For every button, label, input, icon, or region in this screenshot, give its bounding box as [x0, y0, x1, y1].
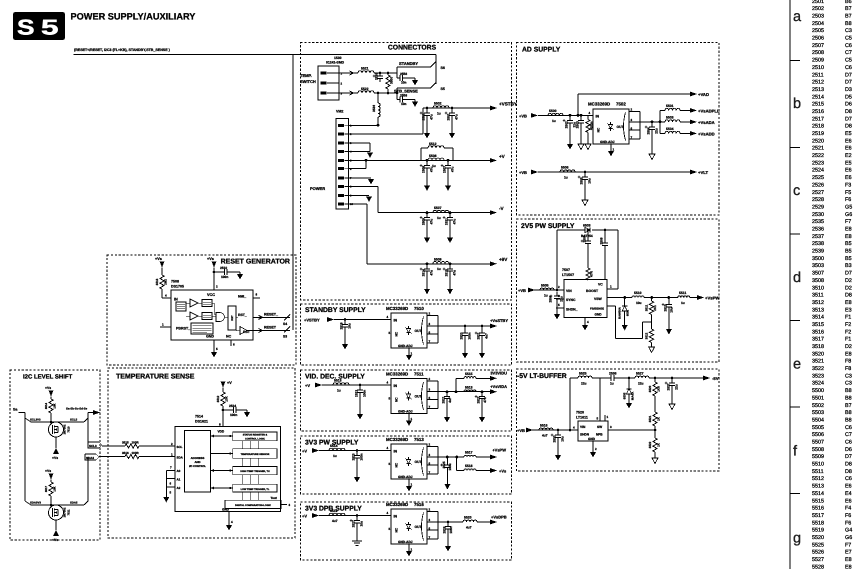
inductor 5505 [540, 283, 554, 297]
svg-text:GND-ADJ: GND-ADJ [398, 344, 413, 348]
svg-text:10u: 10u [360, 521, 364, 527]
wire scl line right [84, 418, 88, 422]
svg-text:+: + [373, 74, 376, 79]
svg-text:22u: 22u [581, 382, 587, 386]
svg-text:GND: GND [222, 507, 230, 511]
svg-text:C3: C3 [845, 373, 852, 379]
svg-text:1u: 1u [564, 176, 568, 180]
svg-text:E8: E8 [845, 234, 852, 240]
svg-text:1u: 1u [681, 301, 685, 305]
flag SCL3 [88, 442, 102, 448]
svg-text:47u: 47u [430, 114, 434, 120]
svg-text:E8: E8 [845, 557, 852, 563]
svg-text:STANDBY SUPPLY: STANDBY SUPPLY [305, 307, 366, 314]
svg-text:S3: S3 [283, 335, 287, 339]
svg-text:C6: C6 [845, 440, 852, 446]
svg-text:AND: AND [194, 460, 200, 464]
svg-text:E5: E5 [845, 131, 852, 137]
svg-text:3508: 3508 [812, 278, 824, 284]
svg-text:5507: 5507 [812, 440, 824, 446]
svg-text:2536: 2536 [812, 227, 824, 233]
svg-text:NC: NC [395, 397, 399, 402]
svg-text:B8: B8 [845, 21, 852, 27]
capacitor 2521 [475, 325, 489, 359]
svg-text:BAW56A: BAW56A [618, 307, 622, 319]
svg-text:3521: 3521 [648, 415, 652, 422]
capacitor 2509b [599, 229, 608, 280]
svg-text:G4: G4 [845, 528, 852, 534]
diode 6503 [581, 224, 593, 238]
svg-text:5510: 5510 [812, 462, 824, 468]
dashed box STANDBY SUPPLY [301, 304, 512, 365]
svg-text:5502: 5502 [434, 102, 442, 106]
svg-text:F6: F6 [845, 520, 851, 526]
svg-text:2509: 2509 [599, 237, 603, 244]
connector VM2 POWER [310, 110, 353, 210]
svg-text:F8: F8 [845, 359, 851, 365]
svg-text:VSW: VSW [594, 297, 603, 301]
supply below 7511 [52, 520, 59, 542]
IC 7514 ground pin [222, 507, 233, 530]
label +V input viddec [305, 383, 322, 388]
svg-text:2514: 2514 [812, 94, 824, 100]
svg-text:-5V: -5V [712, 376, 719, 381]
wire 2v5 input [534, 289, 564, 291]
svg-text:+V: +V [227, 381, 232, 385]
inductor 5519 [329, 509, 345, 523]
svg-text:3511: 3511 [812, 293, 824, 299]
svg-text:E6: E6 [845, 484, 852, 490]
capacitor 2536 series [609, 371, 620, 385]
svg-text:D8: D8 [845, 109, 852, 115]
svg-text:1u: 1u [544, 294, 548, 298]
svg-text:IN: IN [394, 384, 398, 388]
bus wire horizontal [74, 54, 437, 56]
svg-text:5519: 5519 [812, 528, 824, 534]
wire standby input [334, 319, 391, 321]
dashed box I2C LEVEL SHIFT [10, 370, 100, 540]
svg-text:3512: 3512 [812, 300, 824, 306]
supply +Vs sda [45, 469, 53, 482]
dashed box CONNECTORS [301, 43, 512, 301]
svg-text:3521: 3521 [812, 359, 824, 365]
svg-text:E7: E7 [845, 550, 852, 556]
svg-text:F6: F6 [845, 197, 851, 203]
svg-text:S4: S4 [283, 322, 287, 326]
wire ad branch vertical [659, 110, 661, 133]
svg-text:3520: 3520 [648, 385, 652, 392]
svg-text:CONTROL LOGIC: CONTROL LOGIC [245, 437, 265, 440]
svg-text:E6: E6 [845, 175, 852, 181]
connector 1530 TEMP SWITCH [300, 56, 345, 100]
svg-text:+VLT: +VLT [698, 170, 708, 175]
svg-text:5517: 5517 [812, 513, 824, 519]
svg-text:47u: 47u [483, 397, 487, 403]
svg-text:+VsDPB: +VsDPB [491, 515, 507, 520]
svg-text:+Vs: +Vs [45, 469, 51, 473]
svg-text:D2: D2 [845, 344, 852, 350]
svg-text:3514: 3514 [812, 315, 824, 321]
resistor 3517 [44, 482, 56, 505]
svg-text:5507: 5507 [434, 206, 442, 210]
wire RESET output [253, 326, 290, 339]
svg-text:VIN: VIN [580, 425, 586, 429]
wire dpb output [438, 521, 463, 523]
wire a0 a1 a2 ground [163, 466, 180, 503]
svg-text:3514: 3514 [44, 402, 48, 409]
svg-text:E8: E8 [845, 300, 852, 306]
svg-text:6501: 6501 [626, 309, 630, 316]
svg-text:MC33269D: MC33269D [386, 371, 408, 376]
svg-text:RESET_: RESET_ [264, 312, 279, 316]
svg-text:5516: 5516 [540, 423, 548, 427]
inductor 5513 [333, 378, 349, 392]
capacitor 2538 [373, 73, 383, 82]
svg-text:+: + [440, 463, 443, 468]
IC 7508 ground pin [211, 340, 218, 358]
svg-text:I2C LEVEL SHIFT: I2C LEVEL SHIFT [23, 373, 73, 380]
block interconnect lines [242, 441, 258, 501]
wire viddec input [322, 384, 391, 386]
svg-text:2529: 2529 [812, 204, 824, 210]
svg-text:7513: 7513 [414, 437, 424, 442]
dashed box VID. DEC. SUPPLY [301, 370, 512, 431]
capacitor 2527 [350, 516, 364, 542]
zone tick marks [790, 60, 800, 62]
inductor 5506 [560, 165, 575, 179]
wire 3v3pw input [319, 450, 391, 452]
svg-text:+Vs: +Vs [499, 468, 507, 473]
svg-text:C6: C6 [845, 43, 852, 49]
svg-text:+: + [443, 215, 446, 220]
inductor 5515 viddec top [464, 372, 476, 378]
svg-text:SDA3V3: SDA3V3 [30, 500, 41, 504]
inductor 5508 [428, 154, 444, 168]
svg-text:F2: F2 [845, 322, 851, 328]
capacitor 2508b [581, 229, 591, 268]
svg-text:RST_: RST_ [238, 313, 247, 317]
svg-text:GND-ADJ: GND-ADJ [398, 540, 413, 544]
svg-text:3510: 3510 [812, 285, 824, 291]
svg-text:F6: F6 [845, 513, 851, 519]
wire sda line left [31, 504, 84, 506]
capacitor 2521b [441, 390, 451, 422]
svg-text:4u7: 4u7 [466, 525, 472, 529]
svg-text:Tout: Tout [271, 496, 277, 500]
svg-text:VM2: VM2 [336, 110, 343, 114]
capacitor 2510b [214, 266, 243, 279]
svg-text:6505: 6505 [623, 392, 627, 399]
svg-text:5504: 5504 [666, 127, 674, 131]
branch +VsADD [660, 127, 715, 136]
svg-text:2513: 2513 [812, 87, 824, 93]
svg-text:1u: 1u [437, 267, 441, 271]
capacitor 2500 [420, 107, 434, 139]
wire 2v5 out arrow [690, 297, 697, 299]
svg-text:10u: 10u [561, 436, 565, 442]
svg-text:+: + [563, 118, 566, 123]
diode 6505 [623, 377, 635, 409]
rail wire +V [366, 159, 490, 161]
svg-text:B7: B7 [845, 403, 852, 409]
svg-text:2522: 2522 [812, 153, 824, 159]
svg-text:6503: 6503 [583, 224, 591, 228]
capacitor 2507 [441, 159, 455, 191]
svg-text:2538: 2538 [812, 241, 824, 247]
svg-text:LT1507: LT1507 [562, 273, 574, 277]
svg-text:NC: NC [395, 331, 399, 336]
capacitor 2525 [440, 457, 452, 490]
svg-text:7507: 7507 [562, 268, 570, 272]
capacitor 2513 [354, 385, 366, 420]
svg-text:5520: 5520 [464, 515, 472, 519]
svg-text:+: + [475, 394, 478, 399]
svg-text:MC33269D: MC33269D [386, 502, 408, 507]
capacitor 2530 [551, 430, 565, 461]
svg-text:+: + [475, 331, 478, 336]
svg-text:LT1611: LT1611 [576, 415, 588, 419]
svg-text:HIGH TEMP TRIGGER, TH: HIGH TEMP TRIGGER, TH [240, 470, 270, 473]
svg-text:5527: 5527 [636, 371, 644, 375]
svg-text:5515: 5515 [812, 498, 824, 504]
svg-text:5506: 5506 [561, 165, 569, 169]
diode 6501 [618, 298, 630, 331]
svg-text:+VSTBY: +VSTBY [499, 101, 517, 106]
svg-text:2509: 2509 [812, 58, 824, 64]
svg-text:E8: E8 [845, 351, 852, 357]
svg-text:2519: 2519 [339, 322, 343, 329]
svg-text:E3: E3 [845, 307, 852, 313]
IC 7507 ground pin [582, 318, 589, 331]
capacitor 2509 [420, 211, 434, 243]
svg-text:+VB: +VB [519, 170, 527, 175]
svg-text:D7: D7 [845, 454, 852, 460]
svg-text:C6: C6 [845, 65, 852, 71]
capacitor 2505 [578, 172, 592, 206]
svg-text:2518: 2518 [812, 124, 824, 130]
svg-text:RST: RST [231, 315, 234, 321]
svg-text:E6: E6 [845, 146, 852, 152]
svg-text:E6: E6 [845, 498, 852, 504]
svg-text:2503: 2503 [812, 13, 824, 19]
svg-text:C7: C7 [845, 432, 852, 438]
svg-text:3V3VIDU: 3V3VIDU [490, 371, 507, 376]
inductor 5525 [578, 371, 592, 385]
svg-text:2516: 2516 [812, 109, 824, 115]
svg-text:C6: C6 [845, 425, 852, 431]
svg-text:E4: E4 [845, 491, 852, 497]
svg-text:5526: 5526 [812, 550, 824, 556]
svg-text:2521: 2521 [812, 146, 824, 152]
svg-text:5505: 5505 [541, 283, 549, 287]
wire power pin1 [349, 124, 380, 126]
svg-text:(RESET+/RESET, I2C3 (FL+KB), S: (RESET+/RESET, I2C3 (FL+KB), STANDBY,STB… [74, 48, 171, 52]
rail wire -V [378, 212, 490, 214]
svg-text:5527: 5527 [812, 557, 824, 563]
svg-text:+: + [581, 239, 584, 244]
svg-text:SCL: SCL [177, 445, 183, 449]
svg-text:5513: 5513 [334, 378, 342, 382]
svg-text:01241-SMD: 01241-SMD [326, 61, 345, 65]
svg-text:100n: 100n [230, 413, 237, 417]
inductor 5513b viddec [464, 385, 476, 391]
svg-text:47u: 47u [430, 270, 434, 276]
svg-text:2511: 2511 [812, 72, 824, 78]
svg-text:+: + [662, 302, 665, 307]
svg-text:+VsADD: +VsADD [698, 131, 715, 136]
svg-text:C7: C7 [845, 50, 852, 56]
capacitor 2529 [442, 522, 452, 552]
svg-text:1u: 1u [610, 382, 614, 386]
IC 7520 LT1611 [573, 378, 609, 441]
svg-text:F7: F7 [845, 219, 851, 225]
svg-text:100n: 100n [449, 526, 453, 533]
inductor 5502 [433, 102, 449, 116]
svg-text:2523: 2523 [812, 160, 824, 166]
svg-text:5511: 5511 [812, 469, 824, 475]
resistor 3500 [386, 72, 394, 95]
inductor 3536 vertical [372, 93, 380, 125]
IC 7520 ground pin [590, 441, 597, 458]
wire 3v3pw bottom branch [456, 457, 458, 471]
label +VB input lt [517, 428, 533, 433]
resistor 3516 [99, 451, 184, 459]
svg-text:B3: B3 [845, 263, 852, 269]
svg-text:SDA5: SDA5 [70, 500, 78, 504]
svg-text:2M2: 2M2 [164, 279, 168, 285]
capacitor 2511 [443, 211, 457, 243]
svg-text:+: + [420, 111, 423, 116]
svg-text:3518: 3518 [812, 344, 824, 350]
svg-text:E8: E8 [845, 227, 852, 233]
dashed box TEMPERATURE SENSE [108, 368, 295, 538]
svg-text:3517: 3517 [44, 485, 48, 492]
svg-text:C5: C5 [845, 58, 852, 64]
svg-text:+VsADA: +VsADA [698, 120, 715, 125]
svg-text:E6: E6 [845, 168, 852, 174]
svg-text:10u: 10u [348, 323, 352, 329]
branch +VsADPLL [660, 104, 720, 113]
svg-text:C3: C3 [845, 28, 852, 34]
svg-text:4u7: 4u7 [448, 397, 452, 403]
wire reset pbrst [160, 326, 171, 328]
svg-text:4u7: 4u7 [332, 519, 338, 523]
svg-text:+VsADPLL: +VsADPLL [698, 108, 720, 113]
svg-text:10u: 10u [636, 301, 642, 305]
svg-text:VIN: VIN [566, 289, 572, 293]
svg-text:100n: 100n [360, 453, 364, 460]
svg-text:7510: 7510 [67, 426, 71, 433]
svg-text:2556: 2556 [400, 72, 407, 76]
svg-text:5508: 5508 [429, 154, 437, 158]
svg-text:7511: 7511 [67, 509, 71, 516]
svg-text:2520: 2520 [812, 138, 824, 144]
svg-text:2504: 2504 [812, 21, 824, 27]
svg-text:d: d [793, 270, 801, 286]
svg-text:+V: +V [499, 154, 506, 159]
dashed box 2V5 PW SUPPLY [517, 219, 720, 362]
svg-text:47u: 47u [455, 114, 459, 120]
svg-text:4u7: 4u7 [485, 333, 489, 339]
svg-text:E5: E5 [845, 160, 852, 166]
svg-text:5: 5 [41, 16, 59, 40]
svg-text:5528: 5528 [812, 564, 824, 569]
svg-text:+VAD: +VAD [698, 92, 709, 97]
svg-text:BOOST: BOOST [586, 289, 599, 293]
svg-text:D8: D8 [845, 462, 852, 468]
svg-text:1K8: 1K8 [657, 386, 661, 392]
svg-text:47R: 47R [590, 270, 594, 277]
svg-text:D8: D8 [845, 124, 852, 130]
svg-text:2536: 2536 [609, 371, 617, 375]
svg-text:5508: 5508 [812, 447, 824, 453]
svg-text:IN: IN [394, 449, 398, 453]
svg-text:2V5 PW SUPPLY: 2V5 PW SUPPLY [521, 223, 575, 230]
svg-text:B7: B7 [845, 6, 852, 12]
svg-text:5525: 5525 [579, 371, 587, 375]
svg-text:IN: IN [394, 318, 398, 322]
svg-text:B8: B8 [845, 410, 852, 416]
wire 2v5 top loop [556, 230, 558, 290]
svg-text:B5: B5 [845, 256, 852, 262]
svg-text:+V: +V [302, 448, 307, 453]
resistor 3522 [648, 438, 661, 464]
svg-text:3516: 3516 [122, 451, 129, 455]
svg-text:B8: B8 [845, 388, 852, 394]
wire viddec output [438, 391, 490, 393]
inductor 5512 [428, 142, 444, 148]
branch +VsADA [660, 116, 715, 125]
svg-text:2529: 2529 [442, 526, 446, 533]
resistor 3512b [645, 329, 655, 353]
svg-text:VCC: VCC [207, 293, 215, 297]
capacitor 2502 [563, 115, 577, 149]
IC 7514 DS1621 temperature sensor [175, 414, 281, 511]
svg-text:10u: 10u [588, 178, 592, 184]
wire dpb input [319, 515, 391, 517]
svg-text:Sa-Sb-Sc-Sd-Se: Sa-Sb-Sc-Sd-Se [66, 406, 88, 410]
svg-text:GND: GND [206, 335, 214, 339]
svg-text:IN: IN [394, 514, 398, 518]
svg-text:TEMP.: TEMP. [300, 73, 312, 78]
inductor 5514 [329, 444, 345, 458]
svg-text:5515: 5515 [465, 372, 473, 376]
svg-text:100u: 100u [448, 463, 452, 470]
transistor 7511 [49, 505, 64, 520]
resistor 3511 [645, 298, 657, 315]
svg-text:2515: 2515 [812, 102, 824, 108]
svg-text:FB/SENSE: FB/SENSE [590, 307, 604, 311]
svg-text:G6: G6 [845, 535, 852, 541]
svg-text:+: + [551, 433, 554, 438]
svg-text:5517: 5517 [465, 450, 473, 454]
svg-text:7520: 7520 [576, 410, 584, 414]
svg-text:5514: 5514 [330, 444, 338, 448]
svg-text:D8: D8 [845, 293, 852, 299]
svg-text:3516: 3516 [812, 329, 824, 335]
svg-text:GND: GND [588, 437, 596, 441]
svg-text:5501: 5501 [666, 104, 674, 108]
svg-text:1u: 1u [437, 216, 441, 220]
svg-text:F4: F4 [845, 506, 851, 512]
wire power pin8 to rail3 [349, 186, 379, 188]
capacitor 2503 [575, 115, 584, 149]
inductor 5511b [678, 291, 690, 305]
svg-text:D6: D6 [845, 102, 852, 108]
capacitor 2512 [662, 298, 674, 335]
svg-text:2507: 2507 [812, 43, 824, 49]
svg-text:5511: 5511 [679, 291, 686, 295]
